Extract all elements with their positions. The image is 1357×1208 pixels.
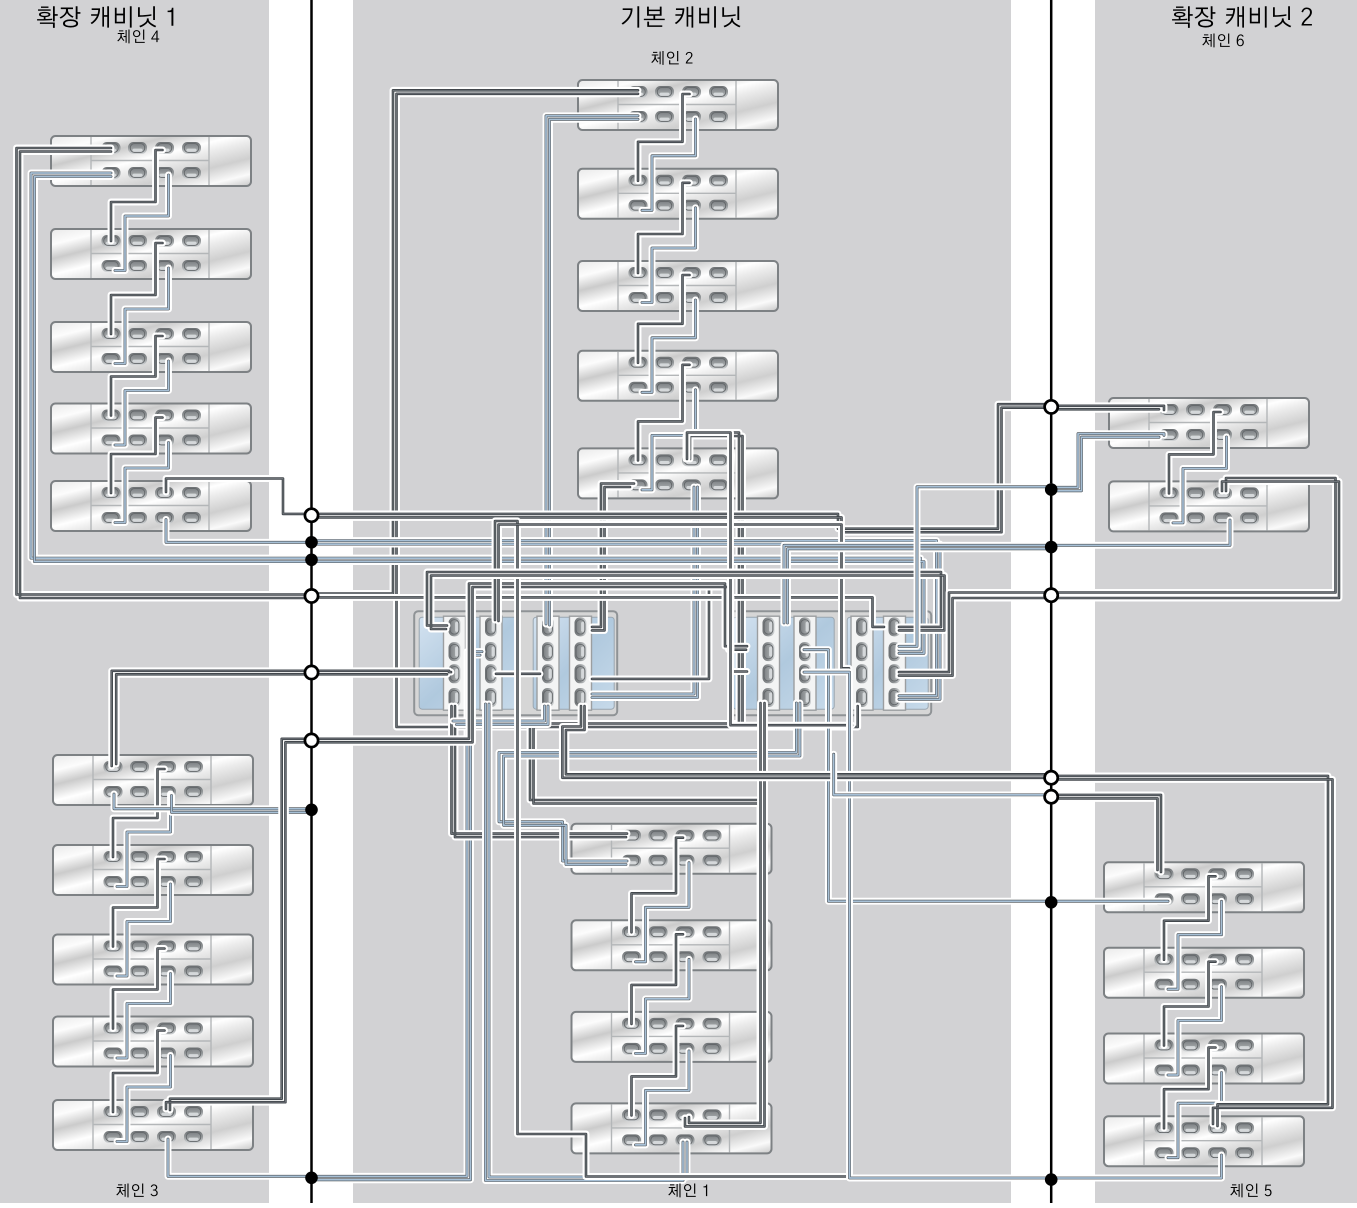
wire cascade blue xyxy=(117,974,171,1059)
wire cascade blue xyxy=(642,208,696,303)
wire T10 xyxy=(312,584,748,743)
wire T1 xyxy=(312,404,1052,532)
junction filled dot line2 y=902.3 xyxy=(1045,896,1058,909)
wire ctrl1 c3p4 stub xyxy=(453,706,548,725)
controller 2 xyxy=(728,611,931,715)
junction filled dot line1 y=559.8 xyxy=(305,554,318,567)
wire cascade dark xyxy=(632,838,684,933)
junction open circle line1 y=515.3 xyxy=(305,509,318,522)
wire ctrl2 c1p3 stub xyxy=(731,597,747,671)
junction open circle line2 y=595.2 xyxy=(1045,589,1058,602)
wire cascade dark xyxy=(111,418,163,494)
wire chain5 s4 bot out xyxy=(1051,1155,1221,1178)
wire T9 xyxy=(312,671,452,675)
wire chain5 s4 feed xyxy=(1051,776,1332,1126)
disk shelf chain5 shelf 3 xyxy=(1104,1034,1304,1084)
wire chain1 bot feed xyxy=(499,703,800,865)
junction open circle line1 y=740.5 xyxy=(305,734,318,747)
disk shelf chain3 shelf 4 xyxy=(53,1017,253,1067)
wire cascade blue xyxy=(117,794,171,887)
wire cascade dark xyxy=(111,243,163,334)
wire cascade blue xyxy=(1173,437,1227,523)
wire cascade blue xyxy=(642,300,696,392)
wire chain3 s5 bot out xyxy=(168,1139,312,1176)
disk shelf chain4 shelf 2 xyxy=(51,229,251,279)
disk shelf chain6 shelf 1 xyxy=(1109,398,1309,448)
junction open circle line1 y=596 xyxy=(305,589,318,602)
wire cascade dark xyxy=(632,934,684,1024)
wire chain3 feed top xyxy=(112,671,312,766)
disk shelf chain3 shelf 1 xyxy=(53,755,253,805)
disk shelf chain3 shelf 5 xyxy=(53,1100,253,1150)
junction filled dot line1 y=542.3 xyxy=(305,536,318,549)
disk shelf chain3 shelf 3 xyxy=(53,935,253,985)
label expansion cabinet 1 xyxy=(37,6,173,28)
wire chain1 s4 loop xyxy=(486,704,688,1181)
wire chain3 feed bot xyxy=(114,794,312,812)
wire cascade blue xyxy=(636,1051,690,1145)
wire cascade blue xyxy=(642,390,696,490)
junction open circle line2 y=777.7 xyxy=(1045,771,1058,784)
wire cascade blue xyxy=(642,119,696,210)
wire T7 xyxy=(312,597,885,627)
disk shelf chain3 shelf 2 xyxy=(53,845,253,895)
label chain 1 xyxy=(668,1184,707,1198)
wire chain2 s1 top feed xyxy=(312,90,858,727)
junction filled dot line2 y=489.5 xyxy=(1045,483,1058,496)
label base cabinet xyxy=(622,6,741,27)
disk shelf chain4 shelf 4 xyxy=(51,404,251,454)
disk shelf chain1 shelf 1 xyxy=(572,824,772,874)
wire cascade dark xyxy=(638,183,690,273)
right cabinet panel xyxy=(1095,0,1357,1203)
wire c2p3 to dot1179 xyxy=(804,672,1051,1178)
wire cascade dark xyxy=(1164,876,1216,959)
left cabinet panel xyxy=(0,0,269,1203)
label chain 4 xyxy=(117,30,159,44)
junction filled dot line2 y=547 xyxy=(1045,541,1058,554)
wire cascade blue xyxy=(115,361,169,445)
wire cascade dark xyxy=(638,275,690,363)
wire cascade blue xyxy=(115,268,169,364)
disk shelf chain1 shelf 4 xyxy=(572,1103,772,1153)
wire cascade dark xyxy=(638,365,690,461)
disk shelf chain1 shelf 2 xyxy=(572,920,772,970)
wire chain1 top feed xyxy=(452,706,628,837)
wire chain4 feed bot xyxy=(31,173,312,562)
label chain 2 xyxy=(651,51,692,65)
disk shelf chain2 shelf 3 xyxy=(578,261,778,311)
wire cascade dark xyxy=(111,150,163,241)
wire chain6 top feed xyxy=(1051,406,1164,410)
disk shelf chain5 shelf 1 xyxy=(1104,862,1304,912)
label chain 6 xyxy=(1202,34,1244,48)
cabinet interconnect line 2 xyxy=(1050,0,1053,1203)
wire cascade blue xyxy=(1168,1073,1222,1158)
disk shelf chain4 shelf 1 xyxy=(51,136,251,186)
wire cascade blue xyxy=(115,175,169,271)
wire cascade blue xyxy=(1168,901,1222,989)
wire cascade dark xyxy=(1164,1048,1216,1129)
wire W xyxy=(592,587,709,679)
middle cabinet panel xyxy=(353,0,1011,1203)
wire cascade dark xyxy=(111,336,163,416)
wire T2 xyxy=(592,487,698,698)
wire chain4 feed top xyxy=(17,148,312,598)
wire T5 xyxy=(312,558,925,653)
disk shelf chain6 shelf 2 xyxy=(1109,481,1309,531)
disk shelf chain5 shelf 2 xyxy=(1104,948,1304,998)
disk shelf chain1 shelf 3 xyxy=(572,1012,772,1062)
wire cascade dark xyxy=(632,1026,684,1116)
label expansion cabinet 2 xyxy=(1172,6,1312,28)
wire chain2 s1 bot feed xyxy=(546,116,638,625)
wire cascade dark xyxy=(113,769,165,857)
wire cascade dark xyxy=(638,94,690,181)
wire T18 xyxy=(592,484,634,631)
wire cascade dark xyxy=(1169,412,1221,493)
wire c2p2 to dot902 xyxy=(804,650,1051,902)
wire chain4 s5 bot out xyxy=(166,520,312,543)
wire chain5 s1 feed xyxy=(1051,795,1161,872)
junction filled dot line2 y=1179.6 xyxy=(1045,1173,1058,1186)
disk shelf chain2 shelf 4 xyxy=(578,351,778,401)
disk shelf chain5 shelf 4 xyxy=(1104,1116,1304,1166)
wire X2 xyxy=(427,572,945,630)
wire ctrl1 jumper p3 xyxy=(496,670,540,677)
disk shelf chain4 shelf 3 xyxy=(51,322,251,372)
wire T16 xyxy=(495,521,850,1177)
wire cascade blue xyxy=(115,443,169,523)
junction filled dot line1 y=1177.8 xyxy=(305,1172,318,1185)
wire cascade blue xyxy=(117,1056,171,1142)
wire chain4 s5 top out xyxy=(166,479,312,514)
wire cascade dark xyxy=(113,949,165,1029)
wire cascade blue xyxy=(636,959,690,1053)
wire T8 xyxy=(899,478,1339,676)
label chain 3 xyxy=(116,1184,157,1198)
label chain 5 xyxy=(1230,1184,1271,1198)
wire cascade dark xyxy=(113,859,165,947)
wire T12 xyxy=(530,433,764,1127)
disk shelf chain2 shelf 1 xyxy=(578,80,778,130)
wire T14 xyxy=(562,706,1051,778)
wire T12new xyxy=(685,703,765,1126)
wire chain6 bot feed xyxy=(1051,434,1164,491)
disk shelf chain2 shelf 2 xyxy=(578,169,778,219)
wire cascade dark xyxy=(113,1031,165,1113)
wire T4 left xyxy=(784,545,1051,623)
controller 1 xyxy=(414,611,617,715)
wire T15 xyxy=(834,754,1051,795)
wire chain6 blue link xyxy=(899,487,1051,647)
wire cascade dark xyxy=(1164,962,1216,1046)
junction open circle line2 y=406.9 xyxy=(1045,400,1058,413)
wire cascade blue xyxy=(1168,987,1222,1075)
wire T3 xyxy=(312,541,941,700)
wire T4 right xyxy=(1051,520,1230,545)
wire Pb bus stub xyxy=(687,433,852,726)
wire cascade blue xyxy=(636,863,690,962)
disk shelf chain4 shelf 5 xyxy=(51,481,251,531)
wire chain3 s5 feed xyxy=(166,739,312,1110)
wire chain5 s1 bot xyxy=(1051,898,1168,905)
junction open circle line1 y=672.5 xyxy=(305,666,318,679)
disk shelf chain2 shelf 5 xyxy=(578,448,778,498)
junction filled dot line1 y=809.8 xyxy=(305,804,318,817)
junction open circle line2 y=796.7 xyxy=(1045,790,1058,803)
cabinet interconnect line 1 xyxy=(310,0,313,1203)
wire cascade blue xyxy=(117,884,171,976)
wire chain3 loop xyxy=(312,652,483,1180)
